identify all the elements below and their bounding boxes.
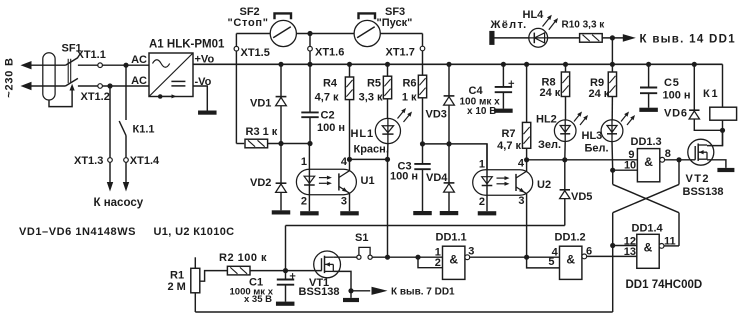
resistor R9 [608,72,616,97]
wire XT1.3 down [109,162,111,182]
wire U1 pin3 [349,193,351,211]
gate DD1.4 [637,234,659,268]
capacitor C3 [414,164,430,169]
latch wire out3 to diag [678,160,680,185]
wire VT2 source [707,160,726,168]
relay contact K1.1 lever [119,121,126,136]
wire bus to VD3 [448,64,450,96]
svg-text:4,7 к: 4,7 к [315,91,339,103]
gate DD1.3 [637,149,659,182]
transistor VT2 [688,139,714,165]
svg-text:R6: R6 [402,77,416,89]
wire bus to R4 [349,64,351,77]
svg-text:XT1.7: XT1.7 [386,46,415,58]
svg-text:VD1: VD1 [250,97,271,109]
wire DD1.1 out to DD1.2 [470,256,560,258]
svg-text:3: 3 [341,196,347,208]
junction bus/C5 [646,62,651,67]
svg-text:XT1.1: XT1.1 [77,49,106,61]
wire VT1 source [333,271,351,298]
ground VD4 [440,211,459,215]
svg-text:DD1.2: DD1.2 [555,232,586,244]
wire VD3 down [448,105,450,144]
wire pin9 node to VD5 [564,160,566,190]
wire pin9 line [527,159,638,161]
latch diagonal B [613,184,679,212]
svg-text:4,7 к: 4,7 к [497,140,521,152]
resistor R5 [383,76,391,99]
wire bar to HL4 [495,37,530,39]
diode VD4 [444,183,455,192]
svg-text:&: & [449,252,458,266]
svg-text:BSS138: BSS138 [683,186,724,198]
junction HL1 column/S1 line [385,255,390,260]
LED HL1 lead through [387,118,389,143]
svg-text:К выв. 7 DD1: К выв. 7 DD1 [391,286,455,297]
svg-text:VD3: VD3 [426,109,447,121]
wire bottom rail [195,311,612,313]
wire C1 lead [285,271,287,280]
LED HL3 lead through [611,120,613,142]
button SF2 contact lever [273,27,291,38]
svg-text:С2: С2 [321,109,335,121]
svg-text:"Стоп": "Стоп" [228,17,269,29]
svg-text:х 35 В: х 35 В [244,294,272,305]
wire XT1.5 corner to SF2 [236,33,270,35]
wire node to C3 [422,144,424,164]
latch wire diag to out4 [678,213,680,246]
LED HL2 lead through [564,120,566,141]
transistor VT1 [314,251,341,278]
svg-text:DD1 74HC00D: DD1 74HC00D [626,279,703,291]
svg-text:Зел.: Зел. [538,139,561,151]
svg-text:С5: С5 [664,77,680,89]
wire C3 to ground [422,169,424,211]
breaker SF1 release arrowhead [70,84,75,91]
svg-text:А1 HLK-PM01: А1 HLK-PM01 [149,39,225,51]
diode VD2 [276,183,287,192]
svg-text:3: 3 [518,195,524,207]
wire DD1.4 out [664,245,679,247]
switch S1 contact right [368,255,372,259]
svg-text:HL1: HL1 [351,128,374,140]
terminal XT1.2 [98,84,103,89]
power module A1 box [149,53,193,97]
button SF2 actuator [275,13,292,19]
button SF3 body [354,20,380,46]
wire VD5 to gate line [564,198,566,225]
wire VD6 to drain node [694,119,722,131]
wire to XT1.3 [109,86,111,158]
wire gate line drop [285,226,287,271]
svg-text:XT1.2: XT1.2 [81,91,110,103]
ground C5 [639,108,658,112]
svg-text:2 М: 2 М [168,281,186,293]
wire -Vo to ground [193,86,207,111]
wire to pin7 arrow [351,290,370,292]
junction bus/R5 [385,62,390,67]
switch S1 contact left [357,255,361,259]
svg-text:&: & [644,241,653,255]
wire S1 to DD1.1 [372,256,442,258]
svg-text:XT1.3: XT1.3 [74,155,103,167]
wire K1.1 lower to XT1.4 [125,136,127,158]
wire XT1.7 column [422,34,424,76]
relay coil K1 [710,107,737,120]
power module A1 diagonal [149,53,193,97]
junction bus/R9 [610,62,615,67]
svg-text:100 н: 100 н [317,122,345,134]
wire VT2 drain [707,130,723,145]
svg-text:R2 100 к: R2 100 к [219,252,267,264]
gate DD1.4 output bubble [659,244,664,249]
junction HL1/U1 pin4 [385,157,390,162]
wire U2 pin4 [526,160,528,172]
wire R10 to arrow [602,37,623,39]
svg-text:U1: U1 [361,175,375,187]
power module A1 bottom pin dot [158,94,163,99]
svg-text:XT1.5: XT1.5 [241,47,270,59]
button SF3 actuator [359,13,376,19]
svg-text:4: 4 [518,158,525,170]
wire XT1.5 to R3 [236,143,244,145]
ground A1 [198,111,217,115]
svg-text:4: 4 [341,156,348,168]
wire K1 to drain node [722,120,724,130]
svg-text:Красн.: Красн. [354,143,389,155]
wire R2 to gate node [250,270,322,272]
terminal XT1.1 [98,63,103,68]
wire bus to C5 [648,64,650,87]
plug pin arrow bottom [21,82,32,90]
power module A1 DC symbol [171,81,185,86]
svg-text:BSS138: BSS138 [299,286,340,298]
gate DD1.3 output bubble [660,157,665,162]
breaker SF1 pole 1 lever [66,58,78,66]
terminal XT1.5 [234,46,239,51]
wire latch column to rail [612,246,614,313]
svg-text:VD1–VD6 1N4148WS: VD1–VD6 1N4148WS [19,226,136,238]
junction VT1 source/pin7 [348,288,353,293]
breaker SF1 release loop [49,90,72,107]
ground VT2 [717,168,734,172]
wire bus to R8 [565,64,567,72]
button SF3 contact lever [357,27,375,38]
wire HL2 to pin9 line [564,141,566,159]
wire R4 to U1 pin4 node [349,100,351,160]
junction VD3/VD4 [446,141,451,146]
C1 plus [290,273,296,279]
svg-text:DD1.3: DD1.3 [631,136,662,148]
junction U1 pin4 [347,157,352,162]
wire HL1 to S1 line [387,144,389,258]
junction U2 pin3/DD1.2 in [524,255,529,260]
svg-text:~230 В: ~230 В [4,57,16,98]
wire bus to VD1 [280,64,282,96]
svg-text:R10 3,3 к: R10 3,3 к [562,19,606,30]
diode VD5 [560,190,570,199]
svg-text:VD5: VD5 [571,191,592,203]
junction DD1.3 out/latch [676,157,681,162]
svg-text:К1: К1 [703,88,719,100]
latch wire diag to pin12 [612,213,614,246]
svg-text:3: 3 [468,246,474,258]
arrow to pin 7 DD1 [372,287,388,295]
svg-text:AC: AC [131,75,147,87]
wire R8 to HL2 [565,97,567,121]
power module A1 bottom arrow [163,95,172,97]
resistor R2 [227,266,250,275]
svg-text:100 н: 100 н [390,170,418,182]
svg-text:Бел.: Бел. [585,142,609,154]
junction HL3/pin10 [610,168,615,173]
breaker SF1 link line 1 [67,59,69,83]
junction C2/U1 pin1 node [307,141,312,146]
sensor stub above R1 [194,257,196,268]
svg-text:2: 2 [301,196,307,208]
wire bus to VD6 [693,64,695,110]
terminal XT1.7 [420,46,425,51]
wire SF3 to XT1.7 corner [380,33,422,35]
wire U2 pin3 [526,194,528,258]
junction U2 pin4/R7 [524,157,529,162]
svg-text:R1: R1 [170,270,184,282]
wire SF1 pole2 to XT1.2 [78,85,149,87]
wire SF1 pole1 to XT1.1 [78,64,149,66]
ground U1 pin3 [340,211,359,215]
svg-text:DD1.1: DD1.1 [436,232,467,244]
wire R1 tap to R2 [200,271,227,282]
junction node A [278,141,283,146]
resistor R1 [191,268,200,293]
LED HL3 [601,112,635,142]
junction R10 bus branch [610,35,615,40]
resistor R8 [561,72,569,97]
wire pin10 line [613,169,638,171]
wire R7 to pin9 line [526,148,528,160]
ground VD2 [272,210,291,214]
power module A1 AC sine [153,60,170,68]
wire R9 to HL3 [611,97,613,120]
svg-text:R7: R7 [501,128,515,140]
wire SF2 to SF3 [296,33,354,35]
junction pin12/R1 column [610,243,615,248]
svg-text:VD4: VD4 [426,172,448,184]
svg-text:2: 2 [435,257,441,269]
svg-text:DD1.4: DD1.4 [632,222,664,234]
button SF2 body [270,20,296,46]
svg-text:HL3: HL3 [582,130,603,142]
svg-text:R3 1 к: R3 1 к [246,126,278,138]
svg-text:"Пуск": "Пуск" [377,17,413,29]
junction R6/C3 [420,141,425,146]
wire XT1.5 column [235,34,237,144]
ground U1 pin2 [300,211,319,215]
resistor R4 [345,77,353,100]
wire mains N [31,85,66,87]
junction bus/R4 [347,62,352,67]
junction DD1.1 inputs [415,255,420,260]
svg-text:U1, U2 К1010С: U1, U2 К1010С [154,226,235,238]
svg-text:1 к: 1 к [402,91,417,103]
svg-text:2: 2 [479,196,485,208]
wire bus to R5 [387,64,389,76]
plug pin arrow top [21,61,32,69]
wire gate line [286,225,565,227]
wire DD1.2 pin5 link [527,257,560,268]
wire DD1.1 pin2 link [418,257,443,268]
wire DD1.3 out to VT2 gate [665,159,696,161]
wire U1 pin4 [349,159,351,171]
resistor R6 [418,75,426,98]
junction bus/VD6 [692,62,697,67]
ground U2 pin2 [478,211,497,215]
ground C4 [494,109,513,113]
resistor R7 [522,122,530,148]
terminal XT1.6 [308,46,313,51]
wire XT1.6 column [309,34,311,65]
capacitor C4 [495,87,512,92]
arrow to pin 14 DD1 [623,34,636,42]
wire XT1.7 to R6 [422,74,424,76]
svg-text:&: & [644,155,653,169]
capacitor C5 [640,88,657,94]
wire pin12 line [613,245,637,247]
wire C1 to ground [285,285,287,302]
svg-text:5: 5 [548,256,554,268]
terminal XT1.4 [124,158,129,163]
wire XT1.4 down [125,162,127,182]
wire R3 to C2 node [268,143,310,145]
wire mains L [31,64,66,66]
gate DD1.1 [443,246,465,279]
svg-text:R4: R4 [323,77,338,89]
wire C2 to node [309,117,311,143]
LED HL2 [554,112,588,142]
latch diagonal A [613,184,679,212]
arrow to pump left [107,182,113,192]
junction K1/VD6/VT2 [720,128,725,133]
svg-text:XT1.6: XT1.6 [315,47,344,59]
svg-text:24 к: 24 к [540,87,561,99]
junction row2 XT1.3 branch [107,83,112,88]
junction bus/C4 [501,62,506,67]
wire drain node down [722,130,724,146]
plug XP1 body [43,53,55,100]
wire C3 node line [423,144,488,170]
C4 plus [509,81,515,87]
wire U1 pin1 [308,144,310,212]
wire bus to C2 [309,64,311,112]
wire +V bus [193,63,723,65]
wire node to VD4 [448,144,450,183]
wire U1 pin4 line [350,158,388,160]
gate DD1.2 [560,246,582,279]
breaker SF1 pole 2 lever [66,78,78,86]
diode VD3 [444,96,455,105]
wire VT1 drain to S1 [333,256,356,258]
svg-text:VD2: VD2 [250,177,271,189]
diode VD1 [276,97,287,106]
svg-text:VT2: VT2 [686,173,710,185]
svg-text:U2: U2 [537,179,551,191]
wire R6 to C3 node [422,98,424,144]
svg-text:XT1.4: XT1.4 [130,155,160,167]
svg-text:24 к: 24 к [589,88,610,100]
wire U2 pin1 [486,144,488,211]
wire HL3 to pin10 node [611,142,614,171]
optocoupler U2 [473,170,533,196]
terminal XT1.3 [108,158,113,163]
wire HL4 node to bus [611,38,613,64]
svg-text:х 10 В: х 10 В [467,106,496,117]
wire C5 to ground [648,93,650,108]
gate DD1.2 output bubble [582,254,587,259]
junction bus/VD3 [446,62,451,67]
junction R2/C1/VT1 gate [283,268,288,273]
wire K1.1 upper [125,65,127,120]
wire DD1.2 out to DD1.4 pin13 [587,255,637,257]
svg-text:S1: S1 [355,232,368,244]
svg-text:3,3 к: 3,3 к [359,91,383,103]
capacitor C1 [277,280,294,285]
svg-text:1: 1 [301,156,307,168]
wire C4 to ground [502,92,504,108]
HL4 supply bar [489,31,494,45]
svg-text:Жёлт.: Жёлт. [490,19,528,31]
wire R1 to bottom rail [194,293,196,312]
latch wire pin10 to diag [612,170,614,184]
svg-text:VD6: VD6 [664,108,688,120]
svg-text:R5: R5 [367,77,381,89]
resistor R3 [245,139,268,148]
junction bus/C2 [307,62,312,67]
optocoupler U1 [296,169,356,195]
wire VD1 to node A [280,106,282,144]
svg-text:&: & [566,252,575,266]
wire bus to C4 [502,64,504,87]
svg-text:AC: AC [131,54,147,66]
wire R5 to HL1 [387,99,389,119]
junction XT1.6 branch [307,31,312,36]
svg-text:1: 1 [479,158,485,170]
ground C1 [276,302,295,306]
svg-text:100 н: 100 н [663,90,691,102]
junction bus/VD1 [278,62,283,67]
wire bus to R7 [526,64,528,122]
junction VD5/HL2 [562,157,567,162]
switch S1 [359,247,370,255]
junction row1 K1.1 branch [123,63,128,68]
wire VD2 to ground [280,192,282,210]
diode VD6 [689,110,699,119]
capacitor C2 [301,112,318,117]
LED HL1 [375,108,412,144]
arrow to pump right [123,182,129,192]
wire bus corner to K1 [722,64,724,107]
LED HL4 body [529,15,558,47]
svg-text:К выв. 14 DD1: К выв. 14 DD1 [640,33,736,45]
svg-text:8: 8 [665,148,671,160]
resistor R10 [580,34,603,43]
wire bus to R9 [611,64,613,72]
svg-text:К насосу: К насосу [94,197,144,209]
wire VD4 to ground [448,192,450,211]
junction bus/R8 [563,62,568,67]
svg-text:HL2: HL2 [536,113,557,125]
junction bus/R7 [524,62,529,67]
wire HL4 to R10 [548,37,580,39]
